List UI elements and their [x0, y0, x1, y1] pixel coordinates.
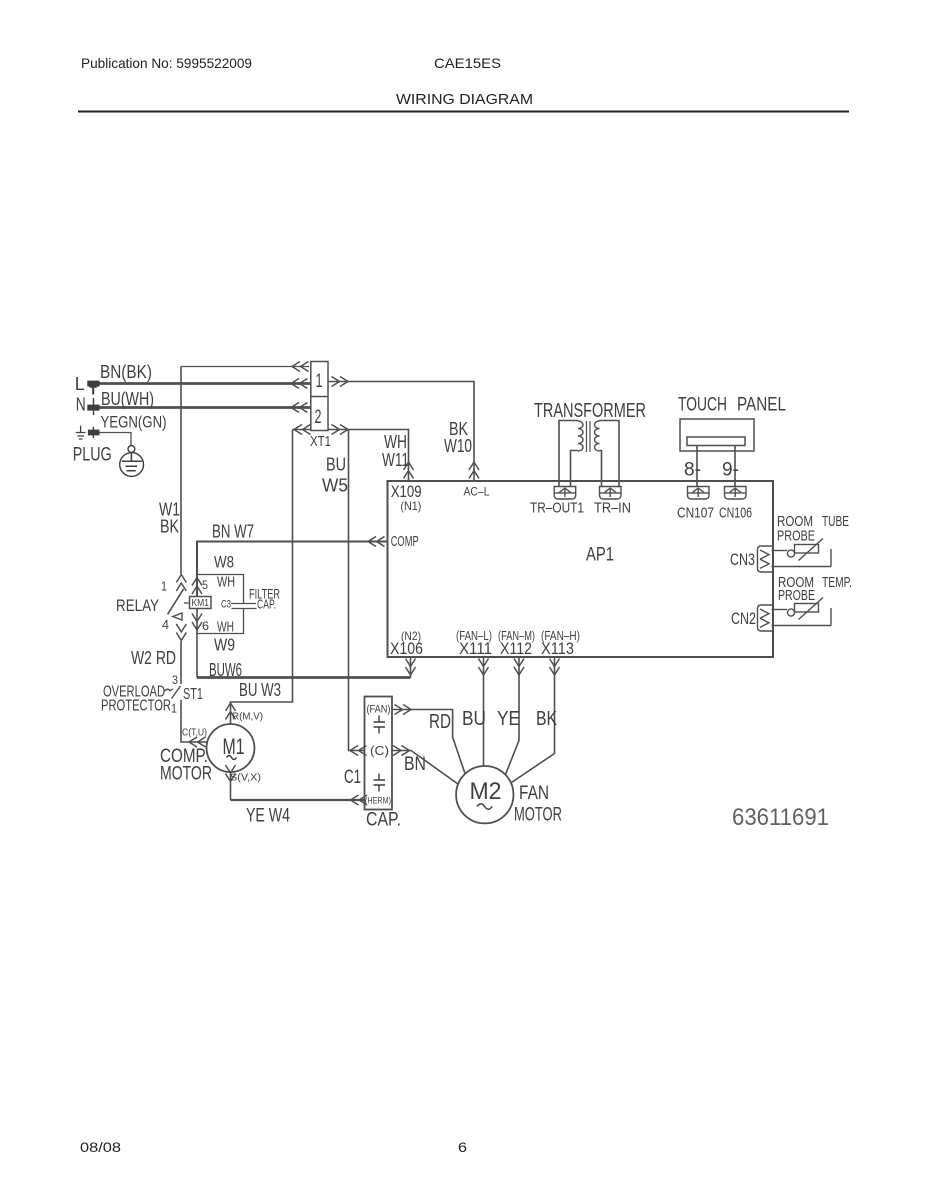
svg-text:W9: W9	[214, 635, 235, 655]
svg-text:RELAY: RELAY	[116, 597, 159, 615]
svg-text:5: 5	[202, 578, 208, 592]
svg-text:YE: YE	[497, 708, 520, 730]
svg-text:PLUG: PLUG	[73, 444, 112, 466]
svg-text:6: 6	[458, 1139, 467, 1155]
svg-text:R(M,V): R(M,V)	[232, 711, 263, 723]
svg-text:9-: 9-	[722, 460, 739, 481]
svg-text:BK: BK	[160, 517, 179, 537]
svg-text:CAE15ES: CAE15ES	[434, 55, 501, 71]
svg-text:RD: RD	[429, 711, 451, 733]
svg-text:CN3: CN3	[730, 550, 755, 569]
svg-text:BN: BN	[404, 754, 426, 775]
svg-text:N: N	[76, 395, 86, 415]
svg-text:CAP.: CAP.	[366, 810, 401, 831]
svg-text:YE W4: YE W4	[246, 806, 290, 827]
svg-text:X113: X113	[541, 639, 574, 658]
svg-text:M2: M2	[470, 778, 502, 805]
svg-text:MOTOR: MOTOR	[160, 764, 212, 785]
svg-text:PROBE: PROBE	[777, 529, 815, 545]
svg-text:W2 RD: W2 RD	[131, 648, 176, 668]
svg-text:C(T,U): C(T,U)	[182, 727, 207, 739]
svg-text:BU(WH): BU(WH)	[101, 389, 154, 409]
svg-text:XT1: XT1	[310, 433, 331, 450]
svg-text:8-: 8-	[684, 460, 701, 481]
svg-text:TR–OUT1: TR–OUT1	[530, 501, 584, 517]
svg-text:(HERM): (HERM)	[365, 796, 391, 807]
svg-text:AC–L: AC–L	[464, 485, 490, 499]
svg-text:WH: WH	[217, 574, 235, 591]
svg-text:WH: WH	[384, 432, 407, 452]
svg-text:CN2: CN2	[731, 609, 756, 628]
svg-text:(C): (C)	[370, 743, 389, 758]
svg-text:YEGN(GN): YEGN(GN)	[101, 413, 167, 432]
svg-text:2: 2	[315, 407, 322, 428]
svg-text:CAP.: CAP.	[257, 598, 276, 612]
svg-text:4: 4	[162, 617, 169, 632]
svg-text:BN W7: BN W7	[212, 522, 254, 542]
svg-text:KM1: KM1	[192, 597, 210, 609]
svg-text:TRANSFORMER: TRANSFORMER	[534, 399, 646, 422]
svg-text:(N1): (N1)	[400, 499, 421, 513]
svg-text:BUW6: BUW6	[209, 660, 242, 680]
svg-text:PROBE: PROBE	[778, 588, 815, 604]
svg-text:W10: W10	[444, 436, 472, 456]
svg-text:ST1: ST1	[183, 686, 203, 703]
svg-text:TR–IN: TR–IN	[594, 501, 631, 517]
svg-text:Publication No: 5995522009: Publication No: 5995522009	[81, 55, 252, 71]
svg-text:PROTECTOR: PROTECTOR	[101, 698, 171, 715]
svg-text:WIRING DIAGRAM: WIRING DIAGRAM	[396, 91, 533, 108]
svg-text:W11: W11	[382, 450, 409, 470]
svg-text:X112: X112	[500, 639, 532, 658]
svg-text:BU W3: BU W3	[239, 680, 281, 700]
svg-text:BU: BU	[462, 708, 486, 730]
svg-text:BU: BU	[326, 455, 346, 475]
svg-text:TOUCH: TOUCH	[678, 395, 727, 416]
svg-text:AP1: AP1	[586, 545, 614, 566]
svg-text:L: L	[75, 374, 85, 394]
svg-text:3: 3	[172, 675, 178, 687]
svg-text:BN(BK): BN(BK)	[100, 362, 152, 382]
svg-text:W8: W8	[214, 553, 234, 572]
svg-text:W5: W5	[322, 476, 348, 496]
svg-text:C3: C3	[221, 599, 231, 611]
svg-text:X106: X106	[390, 639, 423, 658]
svg-text:TUBE: TUBE	[822, 514, 849, 530]
svg-text:FAN: FAN	[519, 783, 549, 804]
svg-text:WH: WH	[217, 619, 234, 636]
svg-text:08/08: 08/08	[80, 1139, 121, 1155]
svg-text:CN106: CN106	[719, 505, 752, 522]
svg-text:CN107: CN107	[677, 505, 714, 522]
svg-text:1: 1	[161, 579, 167, 594]
svg-text:M1: M1	[223, 734, 245, 759]
svg-text:BK: BK	[536, 708, 558, 730]
svg-text:1: 1	[171, 702, 177, 716]
svg-text:6: 6	[202, 619, 209, 633]
svg-text:MOTOR: MOTOR	[514, 805, 562, 826]
svg-text:PANEL: PANEL	[737, 395, 786, 416]
svg-text:63611691: 63611691	[732, 804, 829, 831]
svg-text:X111: X111	[459, 639, 492, 658]
svg-text:C1: C1	[344, 767, 361, 788]
svg-text:COMP: COMP	[391, 533, 419, 550]
svg-text:(FAN): (FAN)	[367, 704, 391, 716]
svg-text:TEMP.: TEMP.	[822, 575, 852, 591]
svg-text:S(V,X): S(V,X)	[230, 772, 261, 784]
svg-text:1: 1	[316, 371, 323, 392]
